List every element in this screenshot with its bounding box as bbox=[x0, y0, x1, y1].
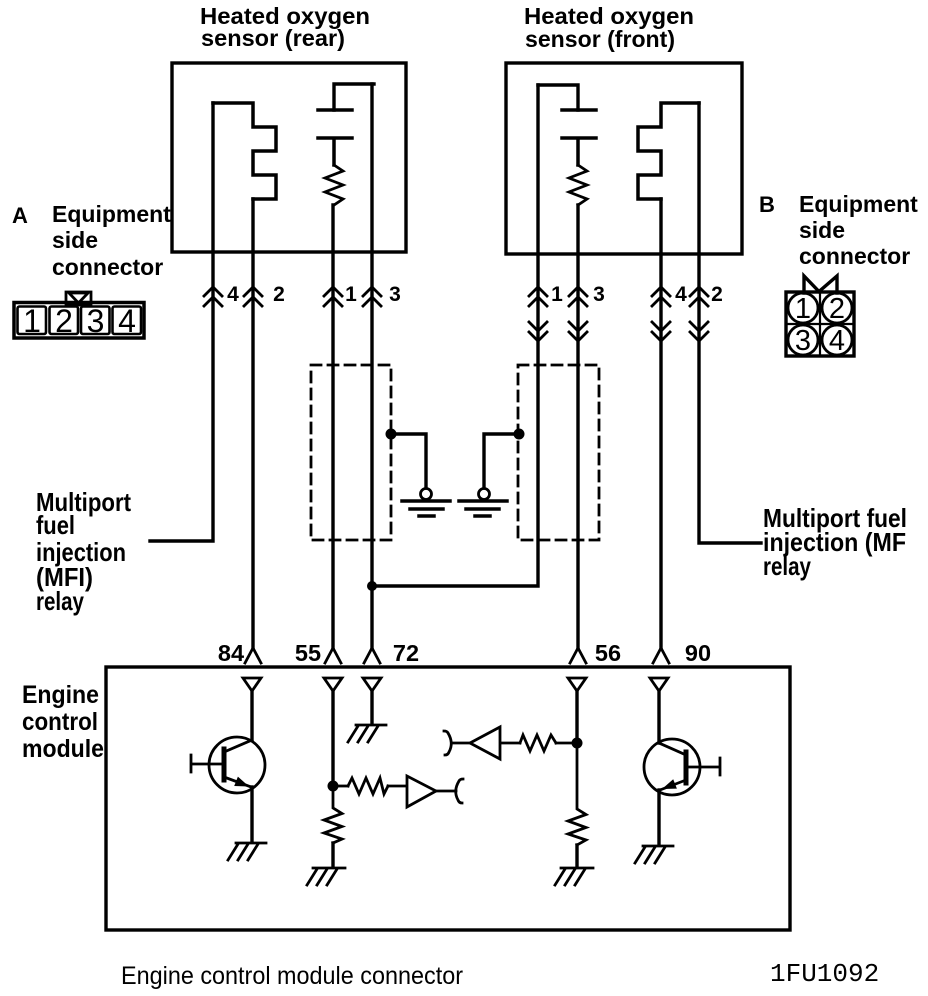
label: 1FU1092 bbox=[770, 959, 879, 989]
pin number 3 (rear) bbox=[389, 283, 401, 306]
connector chevrons up, front wire 1 bbox=[529, 287, 547, 306]
transistor Q1 emitter bbox=[224, 777, 251, 787]
ground terminal circle right bbox=[479, 489, 490, 500]
connector B pin circles bbox=[788, 293, 852, 355]
transistor Q1 emitter arrow bbox=[234, 777, 249, 787]
resistor R4 (vertical under junction) bbox=[568, 748, 586, 845]
wire rear pin3 to ECM 72 bbox=[370, 84, 373, 649]
junction dot on wire 72 bbox=[367, 581, 377, 591]
output hook U2 bbox=[444, 731, 451, 755]
svg-text:72: 72 bbox=[393, 640, 419, 666]
svg-text:sensor (rear): sensor (rear) bbox=[201, 25, 345, 51]
resistor R3 (horizontal) bbox=[520, 735, 556, 751]
connector chevrons up, rear wire 1 bbox=[324, 287, 342, 306]
heater element (rear) bbox=[213, 103, 276, 199]
transistor Q1 base bar bbox=[222, 749, 227, 780]
label: Multiport fuel injection (MFI relay (right) bbox=[763, 503, 907, 581]
label: Engine control module connector bbox=[121, 962, 463, 990]
connector A digits 1 2 3 4 bbox=[23, 303, 136, 339]
pin number 2 (rear) bbox=[273, 283, 285, 306]
label: Equipment side connector (B) bbox=[799, 191, 918, 269]
svg-text:55: 55 bbox=[295, 640, 321, 666]
svg-text:90: 90 bbox=[685, 640, 711, 666]
ECM input triangle pin 72 bbox=[363, 678, 381, 691]
ground symbol Q2 bbox=[635, 846, 673, 863]
buffer U2 (left-pointing) bbox=[470, 727, 500, 759]
wire pin72 to ground bbox=[370, 691, 373, 724]
ground symbol Q1 bbox=[228, 843, 266, 860]
buffer U1 (right-pointing) bbox=[407, 776, 436, 807]
label: Multiport fuel injection (MFI) relay (left) bbox=[36, 487, 131, 616]
label B bbox=[759, 192, 775, 217]
wire pin56 to junction bbox=[575, 691, 578, 743]
wire rear pin2 to ECM 84 bbox=[251, 199, 254, 649]
pin number 1 (rear) bbox=[345, 283, 357, 306]
svg-text:side: side bbox=[52, 227, 98, 253]
svg-text:fuel: fuel bbox=[36, 510, 75, 540]
wire rear pin1 to ECM 55 bbox=[331, 205, 334, 649]
svg-text:1: 1 bbox=[345, 283, 357, 306]
svg-text:B: B bbox=[759, 192, 775, 217]
svg-text:3: 3 bbox=[87, 303, 105, 339]
ECM pin caret 56 bbox=[570, 648, 586, 663]
ECM pin caret 72 bbox=[364, 648, 380, 663]
label: Equipment side connector (A) bbox=[52, 201, 171, 280]
svg-text:relay: relay bbox=[763, 551, 811, 581]
connector chevrons up, front wire 2 bbox=[690, 287, 708, 306]
pin number 3 (front) bbox=[593, 283, 605, 306]
connector chevrons down, front wire 3 bbox=[569, 322, 587, 341]
svg-text:4: 4 bbox=[118, 303, 136, 339]
wire pin84 to transistor Q1 bbox=[250, 691, 253, 740]
sensor cell top bar (rear) bbox=[334, 84, 374, 110]
connector B body bbox=[786, 292, 854, 356]
wire pin90 to transistor Q2 bbox=[657, 691, 660, 743]
junction dot pin55 bbox=[328, 781, 339, 792]
wire junction to resistor R1 bbox=[338, 785, 348, 788]
connector A cell 4 bbox=[113, 307, 142, 335]
transistor Q2 emitter bbox=[660, 780, 686, 790]
ECM input triangle pin 84 bbox=[243, 678, 261, 691]
sensor cell resistor (rear) bbox=[325, 165, 343, 205]
pin number 4 (front) bbox=[675, 283, 687, 306]
svg-text:56: 56 bbox=[595, 640, 621, 666]
ground lead left bbox=[391, 434, 426, 489]
output hook U1 bbox=[456, 779, 463, 803]
svg-text:side: side bbox=[799, 217, 845, 243]
pin number 1 (front) bbox=[551, 283, 563, 306]
sensor cell plates (rear) bbox=[318, 110, 352, 165]
label: Heated oxygen sensor (rear) bbox=[200, 3, 370, 51]
svg-text:A: A bbox=[12, 203, 28, 228]
wire pin55 to junction bbox=[331, 691, 334, 786]
ECM input triangle pin 55 bbox=[324, 678, 342, 691]
sensor box (front) bbox=[506, 63, 742, 254]
connector chevrons up, rear wire 3 bbox=[363, 287, 381, 306]
svg-text:4: 4 bbox=[829, 325, 845, 357]
label A bbox=[12, 203, 28, 228]
ground symbol R4 bbox=[555, 868, 593, 885]
label: Heated oxygen sensor (front) bbox=[524, 3, 694, 52]
ground terminal circle left bbox=[421, 489, 432, 500]
wire junction to resistor R3 bbox=[556, 742, 577, 745]
ground symbol left (body ground) bbox=[402, 501, 450, 516]
wire R4 to ground bbox=[575, 845, 578, 866]
svg-text:2: 2 bbox=[55, 303, 73, 339]
svg-text:Engine: Engine bbox=[22, 681, 99, 709]
connector A cell 1 bbox=[18, 307, 47, 335]
svg-text:4: 4 bbox=[675, 283, 687, 306]
connector B digits 1 2 3 4 bbox=[795, 293, 845, 357]
wire Q1 emitter to ground bbox=[250, 787, 253, 842]
svg-text:2: 2 bbox=[273, 283, 285, 306]
transistor Q1 circle bbox=[209, 737, 265, 793]
wire U1 output bbox=[436, 790, 456, 793]
svg-text:2: 2 bbox=[711, 283, 723, 306]
sensor cell resistor (front) bbox=[569, 165, 587, 205]
pin label 55 bbox=[295, 640, 321, 666]
svg-text:Engine control module connecto: Engine control module connector bbox=[121, 962, 463, 990]
transistor Q1 collector bbox=[224, 740, 252, 752]
junction dot left dashed box bbox=[386, 429, 397, 440]
wire front pin2 to MFI relay bbox=[699, 103, 761, 543]
svg-text:1: 1 bbox=[23, 303, 41, 339]
ECM input triangle pin 90 bbox=[650, 678, 668, 691]
engine control module box bbox=[106, 667, 790, 930]
svg-text:control: control bbox=[22, 708, 98, 736]
sensor cell plates (front) bbox=[562, 110, 596, 165]
svg-text:1: 1 bbox=[551, 283, 563, 306]
transistor Q2 collector bbox=[659, 743, 686, 755]
pin label 90 bbox=[685, 640, 711, 666]
dashed box (front sensor ground region) bbox=[518, 365, 599, 540]
transistor Q1 base lead bbox=[191, 755, 224, 772]
junction dot right dashed box bbox=[514, 429, 525, 440]
svg-text:sensor (front): sensor (front) bbox=[525, 26, 675, 52]
svg-text:relay: relay bbox=[36, 586, 84, 616]
connector chevrons up, rear wire 2 bbox=[244, 287, 262, 306]
connector chevrons up, front wire 3 bbox=[569, 287, 587, 306]
pin label 72 bbox=[393, 640, 419, 666]
ECM pin caret 55 bbox=[325, 648, 341, 663]
sensor cell top bar (front) bbox=[538, 85, 578, 110]
ECM pin caret 84 bbox=[245, 648, 261, 663]
sensor box (rear) bbox=[172, 63, 406, 252]
connector chevrons down, front wire 4 bbox=[652, 322, 670, 341]
connector A cell 3 bbox=[81, 307, 110, 335]
pin label 84 bbox=[218, 640, 244, 666]
connector chevrons up, rear wire 4 bbox=[204, 287, 222, 306]
ground lead right bbox=[484, 434, 519, 489]
connector A keying tab bbox=[66, 292, 91, 305]
wire R2 to ground bbox=[331, 843, 334, 866]
wire front pin3 to ECM 56 bbox=[576, 205, 579, 649]
transistor Q2 base lead bbox=[686, 758, 720, 775]
resistor R2 (vertical under junction) bbox=[324, 791, 342, 843]
svg-text:3: 3 bbox=[795, 325, 811, 357]
wire R1 to buffer U1 bbox=[388, 785, 407, 788]
connector chevrons down, front wire 1 bbox=[529, 322, 547, 341]
svg-text:connector: connector bbox=[52, 254, 163, 280]
svg-text:1: 1 bbox=[795, 293, 811, 325]
connector A body bbox=[14, 303, 144, 339]
svg-text:2: 2 bbox=[829, 293, 845, 325]
wire front pin4 to ECM 90 bbox=[659, 199, 662, 649]
resistor R1 (horizontal) bbox=[348, 778, 388, 794]
wire R3 to buffer U2 bbox=[500, 742, 520, 745]
svg-text:Equipment: Equipment bbox=[52, 201, 171, 227]
svg-text:3: 3 bbox=[593, 283, 605, 306]
wire rear pin4 to MFI relay bbox=[150, 103, 213, 541]
wire front pin1 down to junction link bbox=[372, 85, 538, 586]
pin label 56 bbox=[595, 640, 621, 666]
transistor Q2 emitter arrow bbox=[662, 779, 677, 789]
ECM input triangle pin 56 bbox=[568, 678, 586, 691]
ECM pin caret 90 bbox=[653, 648, 669, 663]
pin number 2 (front) bbox=[711, 283, 723, 306]
wire Q2 emitter to ground bbox=[657, 790, 660, 844]
svg-text:Equipment: Equipment bbox=[799, 191, 918, 217]
svg-text:1FU1092: 1FU1092 bbox=[770, 959, 879, 989]
transistor Q2 circle bbox=[644, 739, 700, 795]
svg-text:84: 84 bbox=[218, 640, 244, 666]
connector chevrons down, front wire 2 bbox=[690, 322, 708, 341]
connector chevrons up, front wire 4 bbox=[652, 287, 670, 306]
ground symbol pin72 bbox=[348, 725, 386, 742]
heater element (front) bbox=[638, 103, 699, 199]
svg-text:4: 4 bbox=[227, 283, 239, 306]
junction dot pin56 bbox=[572, 738, 583, 749]
ground symbol right (body ground) bbox=[459, 501, 507, 516]
connector B keying M bbox=[804, 276, 837, 293]
svg-text:module: module bbox=[22, 735, 104, 763]
transistor Q2 base bar bbox=[684, 752, 689, 783]
svg-text:connector: connector bbox=[799, 243, 910, 269]
ground symbol R2 bbox=[307, 868, 345, 885]
wire U2 output bbox=[452, 742, 470, 745]
connector A cell 2 bbox=[50, 307, 79, 335]
pin number 4 (rear) bbox=[227, 283, 239, 306]
label: Engine control module bbox=[22, 681, 104, 763]
dashed box (rear sensor ground region) bbox=[311, 365, 391, 540]
svg-text:3: 3 bbox=[389, 283, 401, 306]
